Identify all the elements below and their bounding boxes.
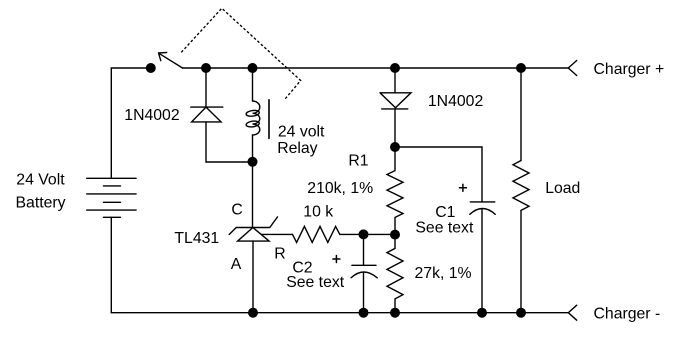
- node dot 27k bottom: [390, 308, 400, 318]
- wire junction down to TL431 cathode: [252, 162, 254, 228]
- wire top rail main segment: [183, 67, 569, 69]
- node dot relay top: [248, 63, 258, 73]
- wire D1 anode down and right to coil junction: [206, 122, 253, 162]
- svg-text:Load: Load: [545, 180, 580, 197]
- svg-text:24 Volt: 24 Volt: [16, 172, 65, 189]
- capacitor C1 plates: [470, 201, 495, 203]
- plus sign for C2: [333, 256, 340, 263]
- svg-text:Relay: Relay: [277, 140, 317, 157]
- node dot divider mid: [390, 230, 400, 240]
- wire coil bottom to junction: [252, 135, 254, 162]
- svg-text:C1: C1: [435, 204, 455, 221]
- wire battery bottom to bottom rail: [110, 217, 112, 312]
- svg-text:See text: See text: [286, 274, 345, 291]
- svg-text:See text: See text: [415, 220, 474, 237]
- svg-text:1N4002: 1N4002: [124, 107, 179, 124]
- switch S1 arm with arrow: [159, 53, 183, 69]
- svg-text:10 k: 10 k: [303, 203, 333, 220]
- node dot load bottom: [516, 308, 526, 318]
- dashed mechanical link from relay to switch: [181, 8, 300, 99]
- wire 10k to node and on to divider: [340, 233, 395, 235]
- wire D2 cathode to node: [394, 109, 396, 147]
- wire TL431 anode to bottom rail: [252, 241, 254, 313]
- svg-text:1N4002: 1N4002: [428, 93, 483, 110]
- wire C1 to bottom rail: [481, 209, 483, 312]
- svg-text:Charger -: Charger -: [594, 306, 661, 323]
- node dot C2 bottom: [359, 308, 369, 318]
- resistor 27k zigzag: [387, 235, 403, 313]
- node dot C1 bottom: [477, 308, 487, 318]
- node dot switch left contact: [146, 63, 156, 73]
- svg-text:27k, 1%: 27k, 1%: [415, 265, 472, 282]
- terminal Charger - chevron: [568, 305, 576, 320]
- diode D1 1N4002 symbol (pointing up): [191, 107, 223, 122]
- relay core bar: [268, 100, 270, 139]
- svg-text:Charger +: Charger +: [594, 61, 665, 78]
- capacitor C2 wire from node: [363, 234, 365, 265]
- battery B1 plates: [87, 178, 136, 217]
- svg-text:R1: R1: [348, 153, 368, 170]
- node dot 10k right / C2 top: [359, 229, 369, 239]
- relay coil wire from top rail: [252, 68, 254, 101]
- node dot D2 bottom / C1 branch: [390, 142, 400, 152]
- svg-text:Battery: Battery: [16, 195, 66, 212]
- diode D2 1N4002: wire from top rail: [394, 68, 396, 93]
- TL431 U1 symbol: [229, 217, 277, 241]
- node dot D1 top: [201, 63, 211, 73]
- diode D2 1N4002 symbol (pointing down): [380, 93, 411, 109]
- load resistor wire from top rail: [520, 68, 522, 161]
- svg-text:TL431: TL431: [174, 230, 219, 247]
- svg-text:C: C: [231, 202, 242, 219]
- node dot TL431 anode bottom: [248, 308, 258, 318]
- svg-text:A: A: [231, 256, 242, 273]
- wire TL431 ref to 10k: [261, 233, 292, 235]
- diode D1 1N4002 flyback: wire from top rail: [205, 68, 207, 107]
- wire top rail left segment and left rail down to battery: [111, 68, 151, 178]
- wire C2 to bottom rail: [363, 273, 365, 313]
- resistor R1 210k zigzag: [387, 147, 403, 235]
- resistor Load zigzag: [513, 161, 529, 211]
- node dot R1 top: [390, 63, 400, 73]
- resistor 10k zigzag: [293, 226, 340, 242]
- wire load to bottom rail: [520, 210, 522, 312]
- node dot coil bottom junction: [248, 157, 258, 167]
- plus sign for C1: [459, 184, 466, 191]
- relay K1 coil loops: [253, 101, 260, 135]
- svg-text:24 volt: 24 volt: [278, 124, 325, 141]
- terminal Charger + chevron: [568, 61, 576, 76]
- node dot load top: [516, 63, 526, 73]
- capacitor C2 plates: [352, 264, 376, 266]
- wire bottom rail: [111, 312, 568, 314]
- wire node to C1 branch: [395, 147, 482, 202]
- svg-text:210k, 1%: 210k, 1%: [307, 180, 373, 197]
- svg-text:R: R: [274, 246, 285, 263]
